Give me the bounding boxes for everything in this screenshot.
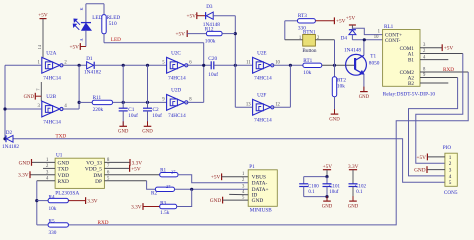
wire A2 to CON5 pin4: [409, 78, 458, 176]
ground below C101: [326, 197, 328, 201]
svg-text:D3: D3: [206, 4, 213, 10]
resistor R3 1.5k: [160, 204, 177, 208]
wire C20 to U2E input: [214, 64, 253, 66]
svg-text:+5V: +5V: [176, 32, 186, 38]
wire net LED to oscillator output bus: [103, 34, 105, 43]
wire U2E output row: [272, 64, 303, 66]
node U2A output junction: [62, 64, 87, 66]
resistor RT1 10k: [303, 63, 322, 67]
svg-text:CONT-: CONT-: [385, 38, 401, 44]
resistor R5 330: [37, 224, 48, 226]
svg-text:RL1: RL1: [384, 24, 394, 30]
resistor R11 220k: [79, 101, 92, 103]
svg-text:U2D: U2D: [171, 87, 181, 93]
svg-text:D2: D2: [6, 130, 13, 136]
svg-text:R4: R4: [49, 194, 55, 200]
svg-text:10k: 10k: [337, 84, 345, 90]
svg-text:3.3V: 3.3V: [348, 164, 359, 170]
wire D1 cathode to U2C input: [95, 64, 167, 66]
wire LED top rail: [86, 3, 104, 5]
wire C2 branch vertical: [147, 65, 149, 108]
svg-text:D4: D4: [341, 36, 348, 42]
svg-text:T1: T1: [370, 54, 376, 60]
svg-text:GND: GND: [329, 117, 340, 122]
capacitor C2 10uf: [143, 107, 152, 109]
LED D-LED indicator: [85, 4, 87, 23]
capacitor C100 0.1: [303, 177, 305, 184]
ground below C2: [147, 121, 149, 126]
power 3.3V at U1 pin3: [30, 174, 55, 176]
wire D4 anode to relay CONT- and collector: [351, 35, 353, 40]
svg-text:LED: LED: [111, 37, 121, 43]
op-amp U2B 74HC14 inverter: [42, 101, 60, 117]
wire D3 to timing node: [213, 15, 235, 17]
svg-text:GND: GND: [19, 160, 31, 166]
wire T1 collector: [363, 40, 365, 56]
power GND pin7 of U2B: [40, 82, 42, 101]
svg-text:U2C: U2C: [171, 50, 181, 56]
svg-text:R11: R11: [93, 95, 102, 101]
power +5V at LED anode: [80, 46, 86, 48]
svg-text:+5V: +5V: [211, 175, 221, 181]
svg-text:RT1: RT1: [303, 58, 312, 64]
ground below C1: [122, 121, 124, 126]
U1 pin6 DM to R1: [104, 174, 159, 176]
U1 pin2 TXD stub: [43, 167, 55, 169]
wire timing node vertical: [234, 16, 236, 108]
op-amp U2E 74HC14 inverter: [253, 57, 271, 73]
svg-text:GND: GND: [210, 198, 222, 204]
svg-text:1.5k: 1.5k: [160, 210, 170, 216]
svg-text:13: 13: [246, 103, 251, 108]
svg-text:1: 1: [449, 155, 452, 161]
svg-text:5: 5: [449, 180, 452, 186]
diode D4 1N4148 flyback: [349, 29, 356, 31]
capacitor C1 10uf: [119, 107, 128, 109]
svg-text:+5V: +5V: [323, 164, 333, 170]
wire TXD long net to CON5 pin5: [13, 139, 445, 182]
resistor R2 27: [155, 187, 174, 191]
svg-text:TXD: TXD: [56, 134, 67, 140]
capacitor C101 10uf: [326, 177, 328, 184]
svg-text:VDD_5: VDD_5: [85, 167, 102, 173]
wire R1 to P1 DATA-: [178, 175, 248, 183]
svg-text:3.3V: 3.3V: [131, 205, 142, 211]
op-amp U2A 74HC14 inverter: [42, 57, 60, 73]
wire U2A-out down to R11 node: [78, 65, 80, 109]
svg-text:8050: 8050: [369, 60, 380, 66]
svg-text:U2F: U2F: [257, 92, 266, 98]
svg-text:+5V: +5V: [70, 44, 80, 50]
svg-text:220k: 220k: [93, 107, 104, 113]
svg-text:PL2303SA: PL2303SA: [55, 190, 79, 196]
svg-text:+5V: +5V: [346, 16, 356, 22]
wire RXD from relay around to R5: [68, 72, 468, 225]
relay pin7 B2 stub: [420, 82, 448, 84]
wire R12 right to timing node: [222, 33, 235, 35]
svg-text:GND: GND: [24, 95, 35, 100]
diode D3 1N4148: [206, 12, 213, 19]
svg-text:LED: LED: [92, 15, 102, 21]
svg-text:510: 510: [109, 21, 117, 27]
op-amp U2C 74HC14 inverter: [167, 57, 185, 73]
svg-text:R2: R2: [151, 190, 157, 196]
U1 pin8 VO_33 to 3.3V: [104, 161, 130, 163]
wire C100 C101 bottom rail: [304, 196, 327, 198]
ground at CON5 pin3: [427, 169, 445, 171]
svg-text:RXD: RXD: [98, 220, 109, 226]
ground below RT2: [334, 97, 336, 114]
svg-text:10k: 10k: [303, 70, 311, 76]
svg-text:R5: R5: [49, 219, 55, 225]
svg-text:2: 2: [449, 161, 452, 167]
svg-text:GND: GND: [118, 130, 129, 135]
svg-text:GND: GND: [252, 198, 264, 204]
wire U2F output loop up: [272, 106, 290, 108]
svg-text:B1: B1: [408, 58, 414, 64]
svg-text:MINIUSB: MINIUSB: [250, 208, 272, 214]
P1 pin4 ID stub: [229, 193, 248, 195]
svg-text:0.1: 0.1: [308, 190, 315, 195]
resistor R12 100k: [206, 31, 222, 35]
svg-text:C100: C100: [308, 185, 319, 190]
wire U2A input from left bus: [5, 64, 42, 66]
svg-text:10uf: 10uf: [208, 71, 218, 78]
svg-text:10uf: 10uf: [329, 190, 339, 195]
svg-text:1N4182: 1N4182: [2, 144, 19, 150]
U1 pin5 DP wire down to R2: [104, 180, 146, 182]
capacitor C102 0.1: [352, 170, 354, 184]
svg-text:A1: A1: [408, 52, 415, 58]
svg-text:RXD: RXD: [443, 67, 454, 73]
svg-text:P1: P1: [249, 164, 255, 170]
ground below C102: [352, 196, 354, 201]
svg-text:TXD: TXD: [58, 167, 69, 173]
wire R2 to P1 DATA+: [175, 188, 249, 190]
svg-text:10: 10: [374, 35, 379, 40]
svg-text:C101: C101: [329, 185, 340, 190]
svg-text:R12: R12: [205, 26, 214, 32]
U1 pin7 VDD_5 to +5V: [104, 167, 129, 169]
svg-text:+5V: +5V: [417, 155, 427, 161]
svg-text:3.3V: 3.3V: [87, 199, 98, 205]
svg-text:10: 10: [275, 61, 280, 66]
svg-text:GND: GND: [414, 168, 426, 174]
resistor R4 10k: [37, 200, 48, 202]
svg-text:C102: C102: [355, 185, 366, 190]
svg-text:1N4182: 1N4182: [84, 69, 101, 75]
svg-text:74HC14: 74HC14: [168, 76, 186, 82]
resistor RLED 510: [103, 4, 105, 15]
wire R3 up to DATA+ net: [177, 189, 192, 206]
op-amp U2D 74HC14 inverter: [167, 95, 185, 111]
wire RT3 left down to button: [284, 21, 286, 40]
svg-text:74HC14: 74HC14: [254, 118, 272, 124]
svg-text:3.3V: 3.3V: [18, 173, 29, 179]
svg-text:U2B: U2B: [46, 94, 56, 100]
resistor RT2 10k: [334, 65, 336, 77]
svg-text:12: 12: [275, 103, 280, 108]
diode D2 1N4182: [3, 137, 6, 140]
svg-text:D1: D1: [86, 56, 93, 62]
svg-text:+5V: +5V: [131, 166, 141, 172]
svg-text:RXD: RXD: [58, 179, 69, 185]
svg-text:74HC14: 74HC14: [43, 119, 61, 125]
relay pin3 COM1 to +5V: [420, 47, 442, 49]
svg-text:+5V: +5V: [187, 14, 197, 20]
svg-text:10k: 10k: [49, 206, 57, 212]
svg-text:1N4148: 1N4148: [344, 48, 361, 54]
svg-text:GND: GND: [348, 204, 359, 209]
wire U2C output to bus: [186, 64, 211, 66]
op-amp U2F 74HC14 inverter: [253, 99, 271, 115]
svg-text:+5V: +5V: [336, 19, 346, 25]
ground at T1 emitter: [363, 87, 365, 92]
svg-text:RT3: RT3: [298, 13, 307, 19]
wire C100 C101 top rail: [304, 176, 327, 178]
resistor R1 27: [160, 173, 178, 177]
svg-text:100k: 100k: [205, 39, 216, 45]
svg-text:+5V: +5V: [444, 46, 454, 52]
svg-text:U2A: U2A: [46, 50, 56, 56]
capacitor C20 10uf coupling: [210, 61, 212, 69]
wire U2B output up to R11: [62, 108, 80, 110]
svg-text:DP: DP: [95, 179, 102, 185]
svg-text:PIO: PIO: [443, 145, 452, 151]
U1 pin4 RXD wire down: [37, 180, 55, 182]
svg-text:U2E: U2E: [257, 50, 267, 56]
svg-text:GND: GND: [142, 130, 153, 135]
svg-text:0.1: 0.1: [356, 190, 363, 195]
svg-text:R1: R1: [160, 167, 166, 173]
wire U2B input: [5, 108, 42, 110]
wire button pin2 down to base node: [315, 39, 334, 41]
wire T1 emitter to ground: [363, 74, 365, 91]
svg-text:B2: B2: [408, 81, 414, 87]
svg-text:C20: C20: [208, 56, 217, 62]
svg-text:GND: GND: [322, 204, 333, 209]
svg-text:74HC14: 74HC14: [168, 113, 186, 119]
svg-text:GND: GND: [359, 95, 370, 100]
svg-text:10uf: 10uf: [128, 112, 138, 119]
transistor T1 8050 NPN: [346, 54, 367, 75]
ground at U1 pin1: [32, 161, 56, 163]
power +5V at CON5 pin1: [427, 156, 445, 158]
svg-text:Relay:DSDT-5V-DIP-10: Relay:DSDT-5V-DIP-10: [383, 91, 436, 97]
wire U2F input: [235, 106, 252, 108]
svg-text:+5V: +5V: [38, 12, 48, 18]
resistor RT3 330: [285, 20, 298, 22]
svg-text:11: 11: [246, 61, 251, 66]
wire A1 to CON5 pin2: [416, 54, 463, 164]
wire D4 cathode to relay CONT+: [352, 28, 382, 34]
diode D1 1N4182: [87, 62, 94, 69]
svg-text:330: 330: [49, 230, 57, 236]
svg-text:74HC14: 74HC14: [254, 76, 272, 82]
svg-text:DATA-: DATA-: [252, 181, 268, 187]
svg-text:10uf: 10uf: [152, 112, 162, 119]
svg-text:3: 3: [449, 168, 452, 174]
svg-text:Button: Button: [302, 48, 317, 54]
wire C1 branch vertical: [122, 65, 124, 108]
power 3.3V right of R4: [68, 200, 85, 202]
svg-text:4: 4: [449, 174, 452, 180]
wire RT1 to T1 base: [322, 64, 355, 66]
svg-text:R3: R3: [160, 200, 166, 206]
power +5V right of RT3: [315, 20, 334, 22]
svg-text:CON5: CON5: [444, 190, 458, 196]
svg-text:7: 7: [36, 89, 41, 91]
wire R11 to U2D input: [113, 101, 167, 103]
svg-text:74HC14: 74HC14: [43, 76, 61, 82]
wire U2D output to bus: [186, 101, 203, 103]
wire left feedback bus: [4, 65, 6, 139]
